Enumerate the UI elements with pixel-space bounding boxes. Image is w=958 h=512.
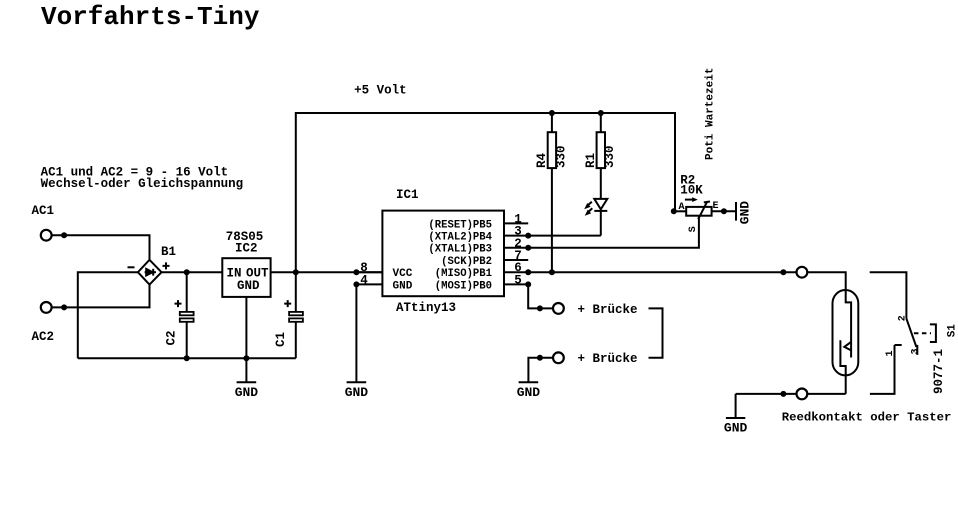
bracket joining bridge terminals: [649, 308, 663, 357]
junction dot AC1: [61, 232, 67, 238]
wire PB0 to bridge terminal 1: [528, 284, 553, 308]
IC1 pin 6 stub: [504, 271, 528, 273]
svg-text:VCC: VCC: [393, 268, 413, 280]
reed switch capsule: [833, 290, 859, 375]
wire C1 bottom: [295, 322, 297, 358]
svg-text:GND: GND: [393, 280, 413, 292]
reed blade top: [846, 290, 851, 357]
svg-text:GND: GND: [235, 385, 259, 400]
wire GND to terminal bottom: [736, 393, 797, 395]
diode inside B1: [145, 271, 156, 273]
svg-text:IC1: IC1: [396, 188, 419, 202]
svg-text:ATtiny13: ATtiny13: [396, 301, 456, 315]
wire poti right terminal to GND: [712, 210, 735, 212]
LED arrow head 2: [585, 210, 591, 216]
svg-text:R4: R4: [535, 152, 549, 168]
wire bridge minus to bottom rail: [78, 272, 138, 358]
IC1 pin 7 stub: [504, 259, 528, 261]
svg-text:IC2: IC2: [235, 242, 258, 256]
junction dot terminal bottom: [780, 391, 786, 397]
LED light arrow 1: [587, 202, 592, 206]
wire +5V rail: [296, 113, 675, 272]
svg-text:(RESET)PB5: (RESET)PB5: [428, 219, 492, 231]
regulator IC2 body: [222, 258, 270, 297]
wire C2 top: [186, 272, 188, 312]
terminal bridge 1: [553, 303, 564, 314]
junction dot C2 top: [184, 269, 190, 275]
svg-text:+5 Volt: +5 Volt: [354, 84, 407, 98]
wire bottom rail (negative): [78, 357, 296, 359]
svg-text:+ Brücke: + Brücke: [578, 352, 638, 366]
IC1 pin 5 stub: [504, 283, 528, 285]
IC1 pin 4 stub: [356, 283, 382, 285]
poti arrow head: [692, 197, 698, 202]
svg-text:2: 2: [898, 315, 909, 321]
svg-text:GND: GND: [738, 201, 753, 225]
wire taster top: [870, 272, 907, 318]
plus sign of B1: [163, 262, 170, 269]
plus sign of C1: [284, 300, 291, 307]
junction dot pin 6: [525, 269, 531, 275]
IC1 pin 1 stub: [504, 222, 528, 224]
bridge rectifier B1 body: [138, 260, 162, 285]
resistor R1 body: [597, 132, 605, 168]
wire PB1 row to terminal: [528, 271, 797, 273]
LED arrow head 1: [584, 203, 590, 209]
minus sign of B1: [128, 266, 135, 268]
wire PB3 row to poti wiper: [528, 216, 699, 248]
wire reed top: [807, 272, 846, 290]
IC1 pin 8 stub: [356, 271, 382, 273]
svg-text:C1: C1: [274, 332, 288, 347]
reed contact triangle: [844, 342, 851, 351]
svg-text:S1: S1: [947, 324, 958, 338]
junction dot bridge terminal 1: [537, 305, 543, 311]
svg-text:AC1: AC1: [32, 204, 55, 218]
svg-text:AC2: AC2: [32, 330, 55, 344]
wire IC1 GND pin down: [355, 284, 357, 382]
wire PB4 row: [528, 235, 601, 237]
junction dot bridge terminal 2: [537, 355, 543, 361]
ground symbol at poti (rotated): [735, 202, 737, 221]
ground symbol under IC2: [237, 358, 257, 382]
LED light arrow 2: [588, 208, 593, 212]
svg-text:Reedkontakt oder Taster: Reedkontakt oder Taster: [782, 411, 952, 425]
potentiometer arrow shaft: [685, 199, 693, 201]
wire R1 top: [600, 113, 602, 132]
junction dot poti right: [721, 208, 727, 214]
junction dot R4 top: [549, 110, 555, 116]
plus sign of C2: [175, 300, 182, 307]
potentiometer wiper slash: [698, 202, 707, 219]
LED cathode bar: [594, 210, 607, 212]
svg-text:Wechsel-oder Gleichspannung: Wechsel-oder Gleichspannung: [41, 177, 244, 191]
svg-text:A: A: [679, 202, 685, 213]
junction dot IC2 GND: [243, 355, 249, 361]
wire R1 to LED: [600, 168, 602, 199]
potentiometer R2 body: [686, 207, 711, 216]
svg-text:+ Brücke: + Brücke: [578, 303, 638, 317]
svg-text:(MISO)PB1: (MISO)PB1: [435, 268, 492, 280]
junction dot R1 top: [598, 110, 604, 116]
svg-text:E: E: [713, 201, 719, 212]
svg-text:S: S: [688, 226, 699, 232]
svg-text:10K: 10K: [680, 183, 703, 197]
svg-text:5: 5: [514, 273, 522, 287]
svg-text:1: 1: [885, 350, 896, 356]
reed blade bottom: [840, 340, 845, 394]
terminal AC1: [41, 230, 52, 241]
junction dot pin 5: [525, 281, 531, 287]
junction dot terminal top: [780, 269, 786, 275]
wire R4 bottom to PB1 row: [551, 168, 553, 272]
svg-text:(MOSI)PB0: (MOSI)PB0: [435, 280, 492, 292]
wire AC1 to bridge top: [52, 235, 150, 260]
svg-text:GND: GND: [517, 385, 541, 400]
wire R4 top: [551, 113, 553, 132]
junction dot pin 3: [525, 233, 531, 239]
ground symbol bottom right: [726, 394, 745, 418]
junction dot poti left: [671, 208, 677, 214]
terminal reed bottom: [797, 389, 808, 400]
wire taster bottom: [870, 345, 895, 394]
junction dot C2 bottom: [184, 355, 190, 361]
wire C1 top: [295, 272, 297, 312]
svg-text:9077-1: 9077-1: [932, 349, 946, 394]
svg-text:GND: GND: [724, 421, 748, 436]
wire LED to PB4 row: [600, 211, 602, 236]
switch S1 linkage dashed: [914, 332, 931, 334]
svg-text:(SCK)PB2: (SCK)PB2: [441, 256, 492, 268]
junction dot pin 4: [353, 281, 359, 287]
switch S1 blade: [906, 319, 916, 347]
wire bridge plus to IC2 IN: [162, 271, 223, 273]
resistor R4 body: [548, 132, 556, 168]
svg-text:GND: GND: [237, 279, 260, 293]
wire AC2 to bridge bottom: [52, 285, 150, 308]
svg-text:(XTAL2)PB4: (XTAL2)PB4: [428, 232, 492, 244]
terminal reed top: [797, 267, 808, 278]
IC1 pin 3 stub: [504, 235, 528, 237]
svg-text:Poti Wartezeit: Poti Wartezeit: [705, 68, 717, 160]
svg-text:Vorfahrts-Tiny: Vorfahrts-Tiny: [41, 2, 260, 32]
wire poti left terminal: [675, 210, 686, 212]
IC1 body: [382, 211, 504, 297]
junction dot pin 2: [525, 245, 531, 251]
svg-text:GND: GND: [345, 385, 369, 400]
svg-text:R1: R1: [584, 153, 598, 168]
wire IC2 OUT to IC1 VCC: [271, 271, 383, 273]
svg-text:(XTAL1)PB3: (XTAL1)PB3: [428, 244, 492, 256]
junction dot IC2 OUT: [293, 269, 299, 275]
svg-text:C2: C2: [165, 330, 179, 345]
junction dot R4 bottom: [549, 269, 555, 275]
terminal AC2: [41, 302, 52, 313]
switch S1 actuator bracket: [930, 324, 936, 342]
LED D1 triangle: [594, 199, 607, 209]
svg-text:330: 330: [603, 145, 617, 168]
junction dot pin 8: [353, 269, 359, 275]
svg-text:330: 330: [554, 145, 568, 168]
wire bridge terminal 2 to GND: [528, 358, 553, 382]
capacitor C1 plates: [289, 312, 303, 315]
ground symbol at bridge terminal: [519, 381, 539, 383]
svg-text:B1: B1: [161, 245, 176, 259]
wire IC2 GND pin down: [245, 297, 247, 358]
capacitor C2 plates: [180, 312, 194, 315]
switch S1 pin 1 tick: [895, 344, 902, 346]
svg-text:3: 3: [911, 348, 922, 354]
wire C2 bottom: [186, 322, 188, 358]
ground symbol under IC1: [347, 381, 367, 383]
terminal bridge 2: [553, 352, 564, 363]
wire reed bottom: [807, 393, 846, 395]
switch S1 pin 3 tick: [916, 345, 918, 355]
IC1 pin 2 stub: [504, 247, 528, 249]
svg-text:4: 4: [360, 273, 368, 287]
junction dot AC2: [61, 304, 67, 310]
